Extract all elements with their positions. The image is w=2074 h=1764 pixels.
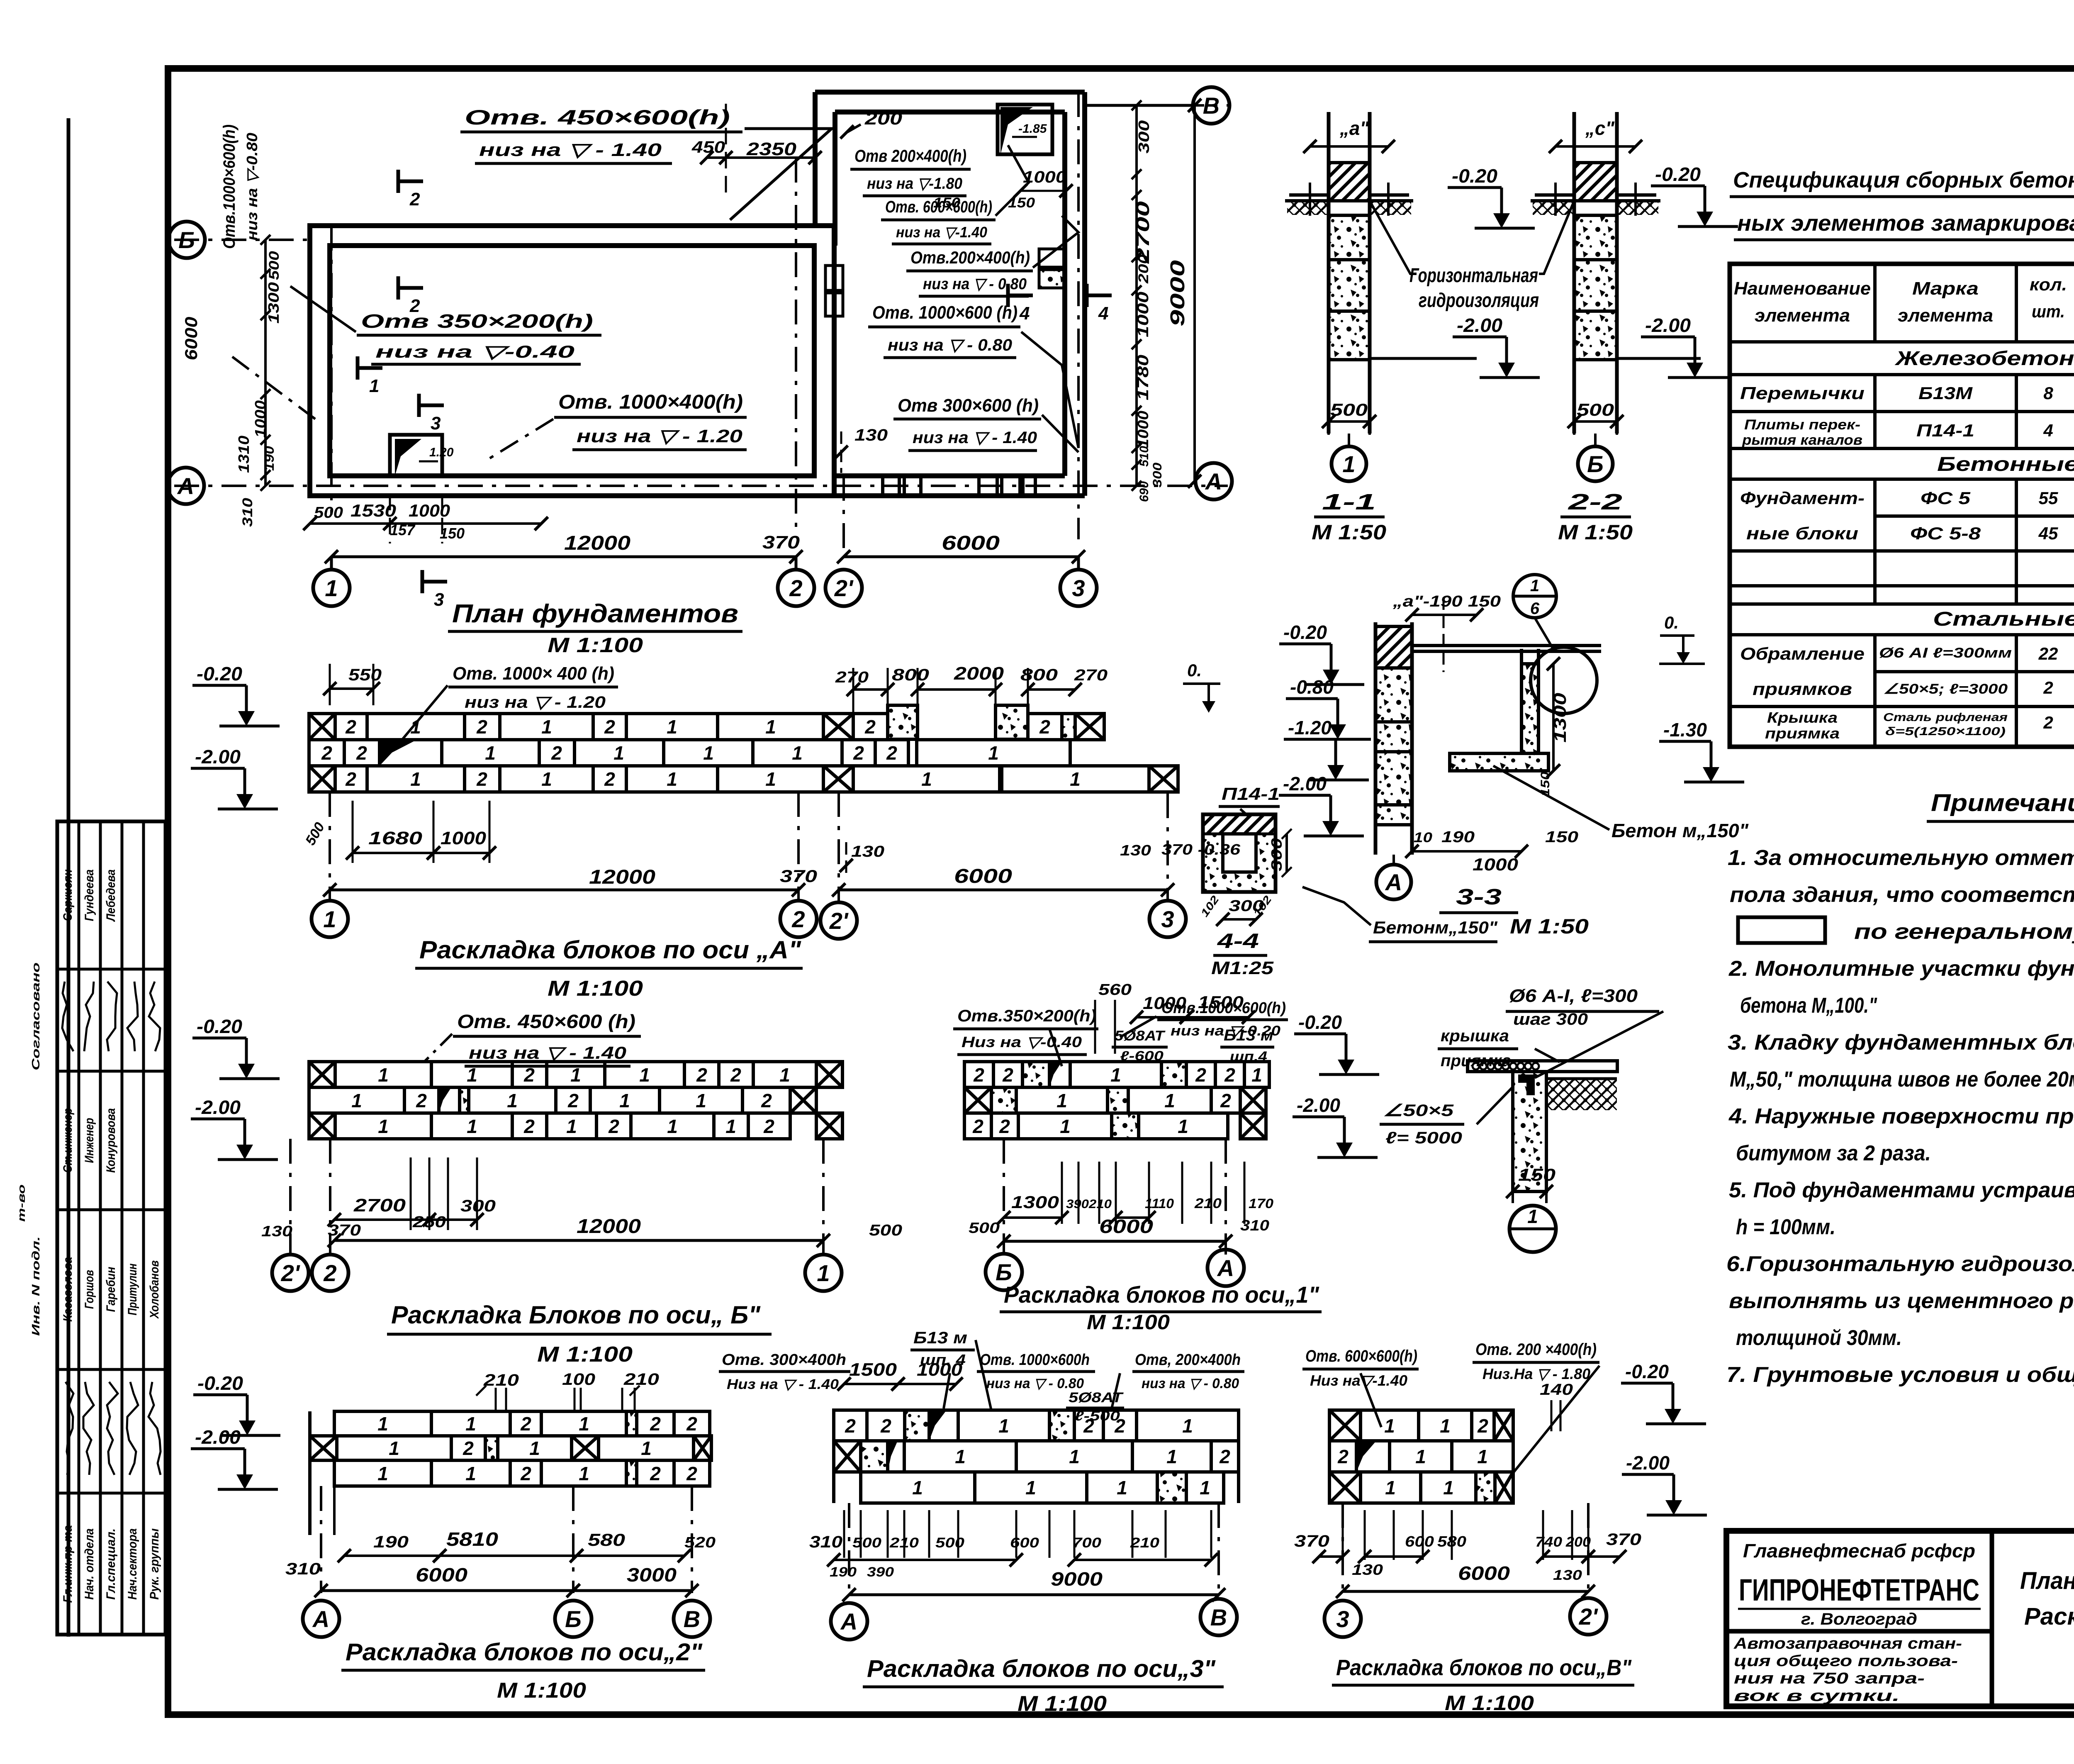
svg-text:1000: 1000 <box>1134 292 1152 337</box>
svg-text:2350: 2350 <box>746 139 797 159</box>
svg-text:ℓ-600: ℓ-600 <box>1120 1048 1164 1063</box>
svg-text:ФС 5: ФС 5 <box>1921 488 1971 508</box>
svg-text:12000: 12000 <box>564 532 630 554</box>
svg-text:2: 2 <box>520 1463 531 1484</box>
svg-text:ния на 750 запра-: ния на 750 запра- <box>1734 1670 1925 1687</box>
svg-text:Отв 350×200(h): Отв 350×200(h) <box>361 310 593 332</box>
svg-text:4: 4 <box>1098 303 1108 324</box>
svg-text:130: 130 <box>1352 1561 1383 1578</box>
svg-text:8: 8 <box>2043 383 2053 403</box>
plan openings small blocks in bottom wall <box>883 476 899 496</box>
svg-text:Сталь рифленая: Сталь рифленая <box>1883 711 2008 724</box>
svg-text:приямка: приямка <box>1765 725 1840 742</box>
svg-text:520: 520 <box>684 1534 716 1551</box>
svg-text:низ на ▽ - 1.40: низ на ▽ - 1.40 <box>469 1043 626 1062</box>
svg-text:1: 1 <box>369 376 379 396</box>
svg-text:2: 2 <box>864 716 876 738</box>
svg-text:2: 2 <box>409 296 420 316</box>
svg-text:300: 300 <box>1135 120 1152 153</box>
svg-text:Б13 м: Б13 м <box>913 1329 967 1347</box>
svg-text:„а": „а" <box>1339 117 1369 139</box>
plan bottom dimension line 12000 370 6000 <box>331 556 796 558</box>
svg-text:Б: Б <box>565 1606 582 1632</box>
svg-text:Железобетонные элементы: Железобетонные элементы <box>1894 348 2074 370</box>
svg-text:-2.00: -2.00 <box>1626 1452 1670 1474</box>
svg-text:Инженер: Инженер <box>83 1118 96 1163</box>
svg-text:1300: 1300 <box>265 282 282 324</box>
svg-text:0.: 0. <box>1664 613 1679 632</box>
svg-text:1: 1 <box>998 1415 1009 1437</box>
svg-text:низ на ▽ - 0.80: низ на ▽ - 0.80 <box>1142 1376 1239 1391</box>
svg-text:Низ на ▽-0.40: Низ на ▽-0.40 <box>962 1033 1082 1050</box>
svg-text:2: 2 <box>1219 1446 1230 1467</box>
svg-text:Отв.200×400(h): Отв.200×400(h) <box>910 248 1030 267</box>
svg-text:130: 130 <box>854 426 888 444</box>
svg-text:1: 1 <box>619 1090 630 1111</box>
svg-text:1: 1 <box>667 768 677 790</box>
svg-text:А: А <box>312 1606 329 1632</box>
svg-text:1: 1 <box>465 1413 476 1435</box>
svg-text:1: 1 <box>1530 577 1539 595</box>
svg-text:Отв. 1000× 400 (h): Отв. 1000× 400 (h) <box>453 663 614 684</box>
svg-text:1500: 1500 <box>849 1360 897 1380</box>
svg-text:6000: 6000 <box>416 1564 467 1586</box>
plan monolithic pit left (black corner box) <box>390 435 442 476</box>
svg-text:1: 1 <box>1440 1415 1451 1437</box>
svg-text:1: 1 <box>541 768 552 790</box>
svg-text:1: 1 <box>467 1116 477 1137</box>
svg-text:3000: 3000 <box>627 1564 677 1586</box>
svg-text:низ на ▽ - 0.80: низ на ▽ - 0.80 <box>888 336 1012 354</box>
raskladka A axis circles <box>312 901 348 937</box>
svg-text:500: 500 <box>1577 400 1614 419</box>
svg-text:М„50," толщина швов не более: М„50," толщина швов не более 20мм. <box>1730 1067 2074 1092</box>
svg-text:2: 2 <box>567 1090 579 1111</box>
svg-text:22: 22 <box>2038 644 2058 663</box>
svg-text:-2.00: -2.00 <box>1283 773 1327 794</box>
svg-text:2: 2 <box>763 1116 774 1137</box>
svg-text:130: 130 <box>261 1223 292 1240</box>
plan monolithic pit right top (black corner box) <box>998 105 1052 154</box>
svg-text:ℓ= 5000: ℓ= 5000 <box>1385 1129 1462 1147</box>
svg-text:500: 500 <box>935 1535 964 1551</box>
svg-text:150: 150 <box>440 525 465 542</box>
title block frame <box>1726 1531 2074 1706</box>
svg-text:2: 2 <box>520 1413 531 1435</box>
svg-text:2: 2 <box>886 742 897 764</box>
svg-text:210: 210 <box>623 1370 659 1389</box>
svg-text:1: 1 <box>641 1438 652 1459</box>
svg-text:Б: Б <box>1587 451 1604 477</box>
svg-text:h = 100мм.: h = 100мм. <box>1736 1215 1835 1239</box>
svg-text:вок в сутки.: вок в сутки. <box>1734 1687 1900 1705</box>
svg-text:2: 2 <box>345 716 356 738</box>
svg-text:1: 1 <box>1527 1206 1538 1227</box>
svg-text:150: 150 <box>1518 1165 1555 1184</box>
svg-text:Отв 300×600 (h): Отв 300×600 (h) <box>898 395 1039 416</box>
svg-text:370: 370 <box>762 532 800 553</box>
svg-text:9000: 9000 <box>1167 260 1189 326</box>
svg-text:Отв.350×200(h): Отв.350×200(h) <box>957 1007 1096 1025</box>
svg-text:1: 1 <box>1385 1477 1396 1498</box>
svg-text:2': 2' <box>829 908 849 934</box>
svg-text:2: 2 <box>463 1438 474 1459</box>
svg-text:крышка: крышка <box>1441 1027 1509 1045</box>
svg-text:Горшов: Горшов <box>83 1270 96 1309</box>
svg-text:2: 2 <box>845 1415 856 1437</box>
svg-text:150: 150 <box>1545 828 1578 846</box>
svg-text:2: 2 <box>1195 1064 1206 1086</box>
svg-text:2: 2 <box>2043 678 2053 697</box>
svg-text:3-3: 3-3 <box>1456 884 1502 909</box>
svg-text:310: 310 <box>809 1533 842 1551</box>
svg-text:1: 1 <box>377 1413 388 1435</box>
svg-text:М 1:100: М 1:100 <box>548 633 643 657</box>
svg-text:низ на ▽ - 1.20: низ на ▽ - 1.20 <box>465 693 606 711</box>
svg-text:∠50×5; ℓ=3000: ∠50×5; ℓ=3000 <box>1883 681 2008 697</box>
svg-text:2: 2 <box>551 742 562 764</box>
svg-text:740: 740 <box>1535 1534 1562 1550</box>
svg-text:Бетонные элементы: Бетонные элементы <box>1937 453 2074 475</box>
svg-text:1: 1 <box>667 1116 678 1137</box>
svg-text:1.20: 1.20 <box>429 446 454 459</box>
svg-text:выполнять из цементного рас: выполнять из цементного раствора состава… <box>1729 1289 2074 1313</box>
svg-text:190: 190 <box>262 446 277 471</box>
svg-text:1: 1 <box>1110 1064 1121 1086</box>
svg-text:Б13М: Б13М <box>1918 383 1973 403</box>
svg-text:1: 1 <box>1069 1446 1080 1467</box>
svg-text:500: 500 <box>314 504 343 521</box>
uzel 1 circle marker <box>1509 1206 1556 1252</box>
svg-text:1: 1 <box>779 1064 790 1086</box>
svg-text:310: 310 <box>285 1560 321 1578</box>
svg-text:300: 300 <box>1151 463 1164 487</box>
svg-text:210: 210 <box>1194 1196 1222 1211</box>
svg-text:6000: 6000 <box>954 865 1012 887</box>
svg-text:2: 2 <box>853 742 864 764</box>
raskladka A blocks band <box>309 705 1178 792</box>
svg-text:1: 1 <box>323 906 336 932</box>
svg-text:1: 1 <box>579 1413 589 1435</box>
svg-text:1-1: 1-1 <box>1322 490 1376 514</box>
svg-text:Бетон м„150": Бетон м„150" <box>1611 820 1749 841</box>
svg-text:-2.00: -2.00 <box>1457 314 1502 336</box>
svg-text:рытия каналов: рытия каналов <box>1742 432 1862 448</box>
svg-text:190: 190 <box>373 1533 409 1551</box>
svg-text:1. За относительную отметку О: 1. За относительную отметку О условно пр… <box>1728 846 2074 870</box>
svg-text:1: 1 <box>1443 1477 1454 1498</box>
svg-text:1: 1 <box>639 1064 650 1086</box>
plan bottom axis circles 1 2 2p 3 <box>313 570 350 606</box>
svg-text:по генеральному плану.: по генеральному плану. <box>1854 920 2074 944</box>
svg-text:2: 2 <box>1220 1090 1231 1111</box>
svg-text:2: 2 <box>789 575 802 601</box>
svg-text:шп.4: шп.4 <box>1230 1049 1267 1065</box>
svg-text:2: 2 <box>608 1116 619 1137</box>
svg-text:2: 2 <box>761 1090 772 1111</box>
raskladka V blocks band <box>1329 1410 1513 1503</box>
svg-text:1: 1 <box>507 1090 518 1111</box>
svg-text:2: 2 <box>416 1090 427 1111</box>
svg-text:-0.20: -0.20 <box>197 1372 243 1394</box>
svg-text:2: 2 <box>345 768 356 790</box>
svg-text:270: 270 <box>835 669 869 686</box>
svg-text:1: 1 <box>1415 1446 1426 1467</box>
svg-text:2-2: 2-2 <box>1568 490 1622 514</box>
detail 4-4 channel section <box>1203 814 1276 892</box>
svg-text:Б: Б <box>178 227 195 253</box>
svg-text:В: В <box>1203 93 1220 119</box>
svg-text:2: 2 <box>1039 716 1050 738</box>
uzel 1 detail drawing <box>1468 1061 1617 1191</box>
svg-text:ℓ-500: ℓ-500 <box>1074 1408 1120 1423</box>
svg-text:Раскладка Блоков по оси„ Б": Раскладка Блоков по оси„ Б" <box>391 1301 761 1329</box>
svg-text:6000: 6000 <box>1458 1562 1510 1584</box>
svg-text:т-во: т-во <box>16 1184 27 1222</box>
svg-text:500: 500 <box>869 1222 902 1239</box>
svg-text:10: 10 <box>1414 830 1432 845</box>
svg-text:низ на ▽-0.20: низ на ▽-0.20 <box>1171 1023 1280 1039</box>
svg-text:Спецификация сборных бетонных,: Спецификация сборных бетонных, железобет… <box>1733 168 2074 192</box>
plan right dim 9000 <box>1193 105 1196 481</box>
svg-text:1: 1 <box>1342 451 1355 477</box>
svg-text:1: 1 <box>955 1446 966 1467</box>
raskladka 3 blocks band <box>834 1410 1239 1503</box>
raskladka 2 axis circles <box>303 1601 339 1637</box>
svg-text:310: 310 <box>1240 1217 1269 1234</box>
section 3-3 pit wall <box>1375 622 1601 855</box>
svg-text:-2.00: -2.00 <box>195 1096 241 1118</box>
svg-text:690: 690 <box>1137 481 1151 502</box>
svg-text:2: 2 <box>476 768 487 790</box>
svg-text:-0.20: -0.20 <box>1625 1361 1669 1382</box>
svg-text:М 1:100: М 1:100 <box>1018 1692 1107 1716</box>
svg-text:2: 2 <box>523 1116 535 1137</box>
svg-text:1000: 1000 <box>1473 855 1518 874</box>
svg-text:3: 3 <box>1072 575 1085 601</box>
svg-text:200: 200 <box>1565 1534 1591 1550</box>
svg-text:12000: 12000 <box>577 1216 641 1238</box>
svg-text:1780: 1780 <box>1134 355 1152 400</box>
svg-text:-2.00: -2.00 <box>195 1426 241 1448</box>
svg-text:210: 210 <box>483 1371 519 1389</box>
svg-text:6000: 6000 <box>942 532 1000 554</box>
svg-text:Бетонм„150": Бетонм„150" <box>1373 918 1498 937</box>
svg-text:1: 1 <box>529 1438 540 1459</box>
svg-text:приямка: приямка <box>1441 1052 1511 1070</box>
svg-text:Отв 200×400(h): Отв 200×400(h) <box>854 146 966 166</box>
svg-text:200: 200 <box>1136 254 1151 284</box>
svg-text:500: 500 <box>266 251 282 280</box>
svg-text:-0.20: -0.20 <box>1655 163 1701 185</box>
svg-text:Лебедева: Лебедева <box>104 870 118 922</box>
svg-text:В: В <box>684 1606 700 1632</box>
svg-text:1: 1 <box>725 1116 736 1137</box>
svg-text:низ на ▽-0.40: низ на ▽-0.40 <box>375 342 574 361</box>
svg-text:ция общего пользова-: ция общего пользова- <box>1734 1652 1958 1670</box>
svg-text:7. Грунтовые условия и общи: 7. Грунтовые условия и общие примечания … <box>1726 1363 2074 1387</box>
svg-text:1: 1 <box>765 768 776 790</box>
svg-text:1: 1 <box>579 1463 589 1484</box>
svg-text:шп. 4: шп. 4 <box>920 1351 966 1368</box>
svg-text:А: А <box>177 473 194 499</box>
svg-text:130: 130 <box>1553 1567 1582 1583</box>
svg-text:1000: 1000 <box>1023 168 1066 186</box>
svg-text:Саркисян: Саркисян <box>61 870 75 921</box>
svg-text:2': 2' <box>834 575 854 601</box>
svg-text:510: 510 <box>1137 446 1151 467</box>
svg-text:П14-1: П14-1 <box>1916 421 1974 440</box>
svg-text:6000: 6000 <box>181 317 201 361</box>
svg-text:ГИПРОНЕФТЕТРАНС: ГИПРОНЕФТЕТРАНС <box>1739 1573 1979 1607</box>
svg-text:М1:25: М1:25 <box>1211 958 1274 978</box>
svg-text:4. Наружные поверхности прия: 4. Наружные поверхности приямков обмазат… <box>1728 1104 2074 1128</box>
svg-text:-0.80: -0.80 <box>1290 676 1334 698</box>
svg-text:1000: 1000 <box>409 501 450 520</box>
section 3-3 axis circle A and caption <box>1392 855 1395 864</box>
svg-text:-1.85: -1.85 <box>1018 122 1047 136</box>
svg-text:А: А <box>1385 869 1402 895</box>
svg-text:Конуровова: Конуровова <box>104 1108 118 1173</box>
svg-text:Отв. 1000×600 (h): Отв. 1000×600 (h) <box>872 302 1018 323</box>
svg-text:2': 2' <box>1579 1603 1598 1630</box>
plan axis circle A-left <box>168 468 204 504</box>
svg-text:„с": „с" <box>1585 117 1615 139</box>
svg-text:П14-1: П14-1 <box>1222 784 1280 804</box>
svg-text:1: 1 <box>410 768 421 790</box>
svg-text:г. Волгоград: г. Волгоград <box>1801 1610 1917 1628</box>
svg-text:-0.20: -0.20 <box>197 1016 242 1037</box>
svg-text:1: 1 <box>667 716 677 738</box>
svg-text:1: 1 <box>765 716 776 738</box>
svg-text:-1.20: -1.20 <box>1288 717 1332 738</box>
svg-text:М 1:100: М 1:100 <box>548 977 643 1001</box>
svg-text:2: 2 <box>1337 1446 1349 1467</box>
svg-text:Низ на▽-1.40: Низ на▽-1.40 <box>1310 1372 1407 1389</box>
svg-text:низ на ▽ - 0.80: низ на ▽ - 0.80 <box>923 275 1027 293</box>
svg-text:310: 310 <box>240 498 256 527</box>
svg-text:1: 1 <box>1117 1477 1127 1498</box>
raskladka 1 axis circles <box>986 1254 1022 1290</box>
svg-text:1: 1 <box>1025 1477 1036 1498</box>
svg-text:δ=5(1250×1100): δ=5(1250×1100) <box>1885 725 2006 738</box>
svg-text:План фундаментов: План фундаментов <box>452 599 738 628</box>
svg-text:1: 1 <box>988 742 999 764</box>
svg-text:500: 500 <box>852 1535 881 1551</box>
svg-text:500: 500 <box>1330 400 1368 419</box>
svg-text:55: 55 <box>2039 488 2058 508</box>
svg-text:550: 550 <box>348 666 382 684</box>
svg-text:130: 130 <box>851 843 884 860</box>
svg-text:370: 370 <box>1606 1530 1641 1549</box>
svg-text:Гл.специал.: Гл.специал. <box>104 1528 118 1600</box>
svg-text:1000: 1000 <box>1134 411 1151 448</box>
raskladka V axis circles <box>1324 1601 1361 1637</box>
svg-text:2700: 2700 <box>353 1195 406 1216</box>
svg-text:Нач.сектора: Нач.сектора <box>126 1528 139 1600</box>
svg-text:„а"-190 150: „а"-190 150 <box>1392 593 1501 610</box>
svg-text:-2.00: -2.00 <box>1297 1094 1340 1116</box>
svg-text:Горизонтальная: Горизонтальная <box>1409 265 1538 287</box>
svg-text:Ø6 АI ℓ=300мм: Ø6 АI ℓ=300мм <box>1879 645 2012 661</box>
svg-text:элемента: элемента <box>1898 305 1993 326</box>
raskladka B main dim 12000 <box>334 1239 823 1242</box>
svg-text:низ на ▽ - 1.40: низ на ▽ - 1.40 <box>913 429 1037 447</box>
svg-text:1: 1 <box>1178 1116 1188 1137</box>
svg-text:Крышка: Крышка <box>1767 709 1838 726</box>
svg-text:2: 2 <box>880 1415 891 1437</box>
svg-text:4-4: 4-4 <box>1217 929 1259 953</box>
svg-text:1: 1 <box>541 716 552 738</box>
svg-text:1: 1 <box>1166 1446 1177 1467</box>
svg-text:Низ на ▽ - 1.40: Низ на ▽ - 1.40 <box>727 1377 839 1392</box>
svg-text:низ на ▽ - 0.80: низ на ▽ - 0.80 <box>986 1376 1084 1391</box>
svg-text:1: 1 <box>1070 768 1081 790</box>
raskladka B blocks band <box>309 1062 842 1139</box>
svg-text:М 1:100: М 1:100 <box>1445 1691 1534 1715</box>
svg-text:300: 300 <box>1268 838 1285 871</box>
svg-text:А: А <box>1205 468 1222 495</box>
svg-text:кол.: кол. <box>2030 275 2067 294</box>
raskladka A main dim line 12000 370 6000 <box>330 889 798 892</box>
svg-text:Гл.инж.пр-та: Гл.инж.пр-та <box>61 1525 75 1603</box>
svg-text:Отв.1000×600(h): Отв.1000×600(h) <box>220 124 239 249</box>
svg-text:Отв.1000×600(h): Отв.1000×600(h) <box>1161 999 1286 1017</box>
svg-text:приямков: приямков <box>1753 679 1852 699</box>
svg-text:Раскладка блоков по оси „А": Раскладка блоков по оси „А" <box>419 936 802 964</box>
sidebar signature table grid <box>57 821 166 1635</box>
svg-text:шаг 300: шаг 300 <box>1513 1010 1588 1028</box>
svg-text:М 1:100: М 1:100 <box>1087 1311 1170 1334</box>
svg-text:битумом за 2 раза.: битумом за 2 раза. <box>1736 1141 1931 1165</box>
svg-text:-0.20: -0.20 <box>1298 1011 1342 1033</box>
plan right dimension chain <box>1135 105 1138 486</box>
svg-text:Наименование: Наименование <box>1734 278 1871 299</box>
plan section cut marks <box>397 170 400 193</box>
svg-text:Притулин: Притулин <box>126 1264 139 1316</box>
svg-text:Отв. 1000×600h: Отв. 1000×600h <box>980 1351 1090 1369</box>
svg-text:2: 2 <box>1002 1064 1013 1086</box>
svg-text:157: 157 <box>390 521 416 538</box>
svg-text:2: 2 <box>604 716 615 738</box>
svg-text:1: 1 <box>325 575 338 601</box>
svg-text:170: 170 <box>1249 1196 1273 1211</box>
raskladka 2 blocks band <box>310 1411 711 1486</box>
svg-text:1: 1 <box>1056 1090 1067 1111</box>
plan axis circle B-left <box>168 222 205 258</box>
svg-text:низ на ▽ - 1.20: низ на ▽ - 1.20 <box>577 426 743 446</box>
svg-text:1: 1 <box>912 1477 923 1498</box>
svg-text:190: 190 <box>830 1564 857 1579</box>
raskladka B axis circles <box>272 1255 309 1291</box>
svg-text:Отв. 300×400h: Отв. 300×400h <box>722 1351 846 1369</box>
foundation plan walls <box>310 92 1085 496</box>
detail bubble 1/6 <box>1513 575 1556 618</box>
svg-text:Отв. 450×600 (h): Отв. 450×600 (h) <box>457 1011 635 1032</box>
sidebar signature squiggles <box>62 982 73 1051</box>
section 1-1 wall <box>1327 112 1331 434</box>
svg-text:1: 1 <box>1477 1446 1488 1467</box>
svg-text:4: 4 <box>1019 303 1030 324</box>
svg-text:580: 580 <box>588 1530 625 1550</box>
raskladka A dashed axis lines down <box>329 792 331 901</box>
svg-text:шт.: шт. <box>2032 302 2065 321</box>
svg-text:6.Горизонтальную гидроизоляци: 6.Горизонтальную гидроизоляцию стен на о… <box>1726 1252 2074 1276</box>
svg-text:2: 2 <box>356 742 367 764</box>
raskladka 2 left extension lines <box>308 1411 312 1535</box>
svg-text:Холобанов: Холобанов <box>148 1260 161 1319</box>
svg-text:12000: 12000 <box>589 866 655 888</box>
